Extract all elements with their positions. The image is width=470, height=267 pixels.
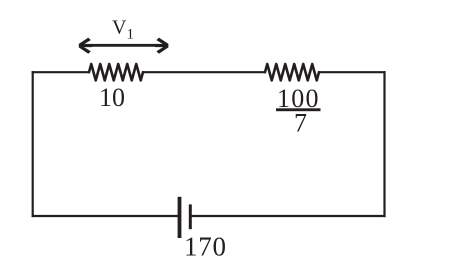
svg-text:170: 170 [184,232,226,262]
svg-text:1: 1 [127,27,135,43]
svg-text:7: 7 [294,109,307,138]
svg-text:V: V [112,17,127,39]
svg-text:10: 10 [99,83,125,112]
